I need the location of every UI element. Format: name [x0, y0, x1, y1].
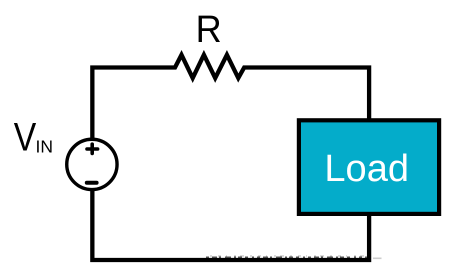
svg-text:R: R	[196, 7, 222, 50]
svg-text:V: V	[14, 115, 37, 159]
svg-text:IN: IN	[36, 136, 54, 156]
svg-text:Load: Load	[324, 148, 409, 190]
